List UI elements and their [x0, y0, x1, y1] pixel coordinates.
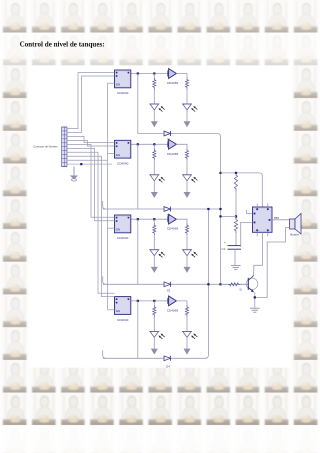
svg-text:EN: EN — [116, 228, 120, 232]
svg-text:EN: EN — [116, 309, 120, 313]
svg-text:C1: C1 — [222, 247, 226, 251]
svg-text:CD4069: CD4069 — [167, 227, 179, 231]
svg-text:EN: EN — [116, 83, 120, 87]
svg-text:CD4069: CD4069 — [167, 81, 179, 85]
svg-text:CD4040: CD4040 — [117, 318, 129, 322]
svg-text:CD4040: CD4040 — [117, 236, 129, 240]
svg-text:Buzzer: Buzzer — [290, 232, 298, 236]
svg-text:S3: S3 — [167, 289, 171, 293]
svg-text:CD4069: CD4069 — [167, 152, 179, 156]
svg-text:EN: EN — [116, 153, 120, 157]
svg-text:Control de nivel de tanques:: Control de nivel de tanques: — [20, 39, 105, 48]
svg-text:S1: S1 — [167, 138, 171, 142]
svg-text:CD4040: CD4040 — [117, 162, 129, 166]
svg-text:555: 555 — [274, 216, 279, 220]
svg-text:+: + — [224, 241, 226, 245]
svg-text:S2: S2 — [167, 213, 171, 217]
svg-text:CD4040: CD4040 — [117, 91, 129, 95]
svg-text:D4: D4 — [166, 365, 170, 369]
svg-text:Conector de Niveles: Conector de Niveles — [33, 145, 58, 149]
svg-text:CD4069: CD4069 — [167, 308, 179, 312]
